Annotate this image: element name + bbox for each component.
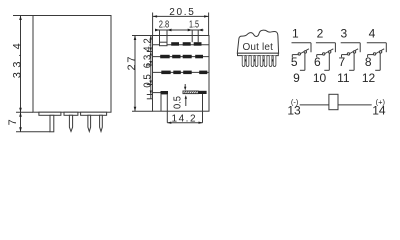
svg-text:3: 3 xyxy=(340,27,347,41)
pad row 2 xyxy=(153,55,210,59)
svg-text:11: 11 xyxy=(337,71,350,85)
coil wire right xyxy=(338,104,372,106)
svg-text:5: 5 xyxy=(291,55,298,69)
relay body side view xyxy=(13,16,111,113)
svg-text:10: 10 xyxy=(313,71,327,85)
left chain 4.2 / 6.3 / 0.5 xyxy=(142,36,153,99)
coil xyxy=(329,94,338,109)
coil wire left xyxy=(300,104,329,106)
svg-text:2: 2 xyxy=(317,27,324,41)
pad row 4 xyxy=(153,91,207,95)
outlet pins xyxy=(242,56,276,67)
coil terminal 14 xyxy=(372,97,386,117)
contact pole 4 xyxy=(362,27,386,85)
svg-text:1: 1 xyxy=(292,27,299,41)
dimension 33.4 xyxy=(12,16,24,113)
contact pole 1 xyxy=(291,27,311,85)
coil terminal 13 xyxy=(287,97,301,117)
svg-text:13: 13 xyxy=(287,104,301,118)
svg-text:Out let: Out let xyxy=(242,42,273,53)
svg-text:7: 7 xyxy=(7,119,19,125)
pad row 3 xyxy=(153,71,210,75)
left dimension chain 27 xyxy=(126,36,138,112)
svg-text:1.5: 1.5 xyxy=(189,20,199,31)
contact pole 3 xyxy=(337,27,360,85)
svg-text:2.8: 2.8 xyxy=(159,20,170,31)
svg-text:12: 12 xyxy=(362,71,376,85)
svg-text:9: 9 xyxy=(293,71,300,85)
svg-text:0.5: 0.5 xyxy=(172,96,183,109)
pad row 1 xyxy=(153,42,210,46)
pin 2 xyxy=(69,115,72,131)
contact pole 2 xyxy=(313,27,336,85)
svg-text:7: 7 xyxy=(339,55,346,69)
dimension 7 xyxy=(7,112,22,132)
pin 3 xyxy=(88,115,91,131)
relay base strip xyxy=(39,112,107,115)
svg-text:20.5: 20.5 xyxy=(169,7,194,18)
svg-text:14: 14 xyxy=(372,104,386,118)
dimension 0.5 inner xyxy=(172,84,187,109)
dimension 20.5 xyxy=(153,7,209,35)
dimension 14.2 xyxy=(161,94,203,125)
svg-text:6: 6 xyxy=(314,55,321,69)
svg-text:27: 27 xyxy=(126,57,138,71)
svg-text:0.5: 0.5 xyxy=(142,74,153,88)
svg-text:4.2: 4.2 xyxy=(142,38,153,52)
svg-text:14.2: 14.2 xyxy=(172,114,196,125)
bottom view outline xyxy=(132,36,209,112)
pin 1 flat xyxy=(16,115,54,132)
dimension 2.8 xyxy=(155,20,204,43)
svg-text:4: 4 xyxy=(369,27,376,41)
svg-text:8: 8 xyxy=(365,55,372,69)
outlet blob xyxy=(237,30,278,55)
pin 4 xyxy=(100,115,103,131)
dimension 1.5 xyxy=(188,20,203,43)
svg-text:6.3: 6.3 xyxy=(142,54,153,68)
